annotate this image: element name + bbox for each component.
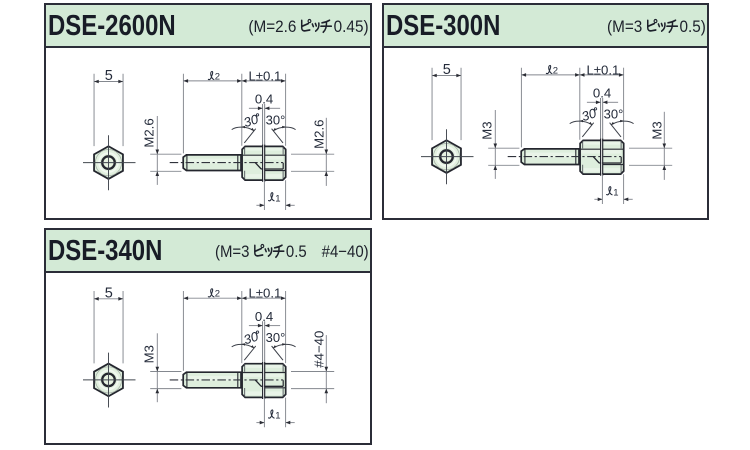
- katakana chi: [323, 20, 331, 23]
- chamfer edge lines: [245, 364, 283, 397]
- chamfer edge lines: [583, 141, 621, 174]
- left thread dimension: [156, 333, 158, 402]
- hex flat edge lines: [580, 148, 624, 150]
- 30 degree chamfer callouts: [244, 346, 283, 360]
- svg-text:1: 1: [613, 187, 618, 198]
- hex flat edge lines: [242, 372, 286, 374]
- dimension l1: [264, 180, 285, 210]
- right thread dimension: [325, 335, 327, 403]
- katakana pi: [255, 244, 284, 257]
- part centerline: [508, 156, 622, 158]
- dimension l2: [183, 74, 241, 154]
- dimension 5 (across flats): [94, 291, 123, 363]
- svg-text:M2.6: M2.6: [312, 120, 327, 149]
- svg-text:1: 1: [275, 411, 280, 422]
- svg-text:L±0.1: L±0.1: [586, 62, 619, 77]
- katakana small tsu: [312, 24, 315, 27]
- svg-text:30°: 30°: [266, 113, 286, 128]
- hex flat edge lines: [242, 154, 286, 156]
- left thread dimension: [494, 110, 496, 179]
- svg-text:L±0.1: L±0.1: [248, 286, 281, 301]
- 30 degree chamfer callouts: [244, 129, 283, 143]
- hexagon end view: [432, 140, 461, 173]
- katakana small tsu: [658, 24, 661, 27]
- hex body side view: [242, 364, 286, 398]
- threaded stud side view: [183, 155, 241, 171]
- svg-text:5: 5: [105, 68, 113, 84]
- part centerline: [170, 379, 284, 381]
- dimension l1: [264, 398, 285, 428]
- dimension 5 (across flats): [94, 74, 123, 146]
- tapped hole section lines: [255, 163, 261, 169]
- svg-text:L±0.1: L±0.1: [248, 68, 281, 83]
- hex crosshair centerlines: [83, 353, 136, 408]
- panel DSE-300N: [382, 3, 709, 220]
- katakana chi: [668, 20, 676, 23]
- katakana pi: [302, 19, 332, 32]
- svg-text:5: 5: [105, 285, 113, 301]
- left thread dimension: [156, 116, 158, 185]
- hexagon end view: [94, 364, 123, 397]
- svg-text:1: 1: [275, 193, 280, 204]
- svg-text:#4−40: #4−40: [312, 331, 327, 368]
- right thread dimension: [663, 112, 665, 180]
- dimension L±0.1: [623, 68, 625, 140]
- svg-text:0.4: 0.4: [255, 92, 273, 107]
- chamfer edge lines: [245, 147, 283, 180]
- hex crosshair centerlines: [83, 135, 136, 190]
- screwdriver slot: [601, 139, 602, 176]
- tapped hole section lines: [593, 157, 599, 163]
- panel DSE-2600N: [44, 3, 372, 220]
- dimension 5 (across flats): [432, 68, 461, 140]
- dimension l2: [183, 291, 241, 371]
- svg-text:2: 2: [553, 65, 558, 76]
- hexagon end view: [94, 146, 123, 179]
- thread label M2.6: [142, 118, 157, 147]
- threaded stud side view: [521, 149, 579, 165]
- svg-text:M3: M3: [480, 121, 495, 139]
- svg-text:M2.6: M2.6: [142, 118, 157, 147]
- thread label M2.6: [312, 120, 327, 149]
- svg-text:5: 5: [443, 62, 451, 78]
- dimension 0.4 (slot width): [263, 104, 265, 144]
- panel DSE-340N: [44, 228, 372, 445]
- hex crosshair centerlines: [421, 129, 474, 184]
- threaded stud side view: [183, 372, 241, 388]
- thread label M3: [480, 121, 495, 139]
- dimension l2: [521, 68, 579, 148]
- svg-text:M3: M3: [142, 345, 157, 363]
- svg-text:30°: 30°: [604, 107, 624, 122]
- 30 degree chamfer callouts: [582, 123, 621, 137]
- dimension l1: [602, 174, 623, 204]
- thread label M3: [142, 345, 157, 363]
- dimension L±0.1: [285, 291, 287, 363]
- thread label #4&#8722;40: [312, 331, 327, 368]
- right thread dimension: [325, 118, 327, 186]
- thread label M3: [650, 121, 665, 139]
- svg-text:30°: 30°: [266, 330, 286, 345]
- svg-text:M3: M3: [650, 121, 665, 139]
- screwdriver slot: [263, 362, 264, 399]
- dimension L±0.1: [285, 74, 287, 146]
- dimension 0.4 (slot width): [601, 98, 603, 138]
- svg-text:0.4: 0.4: [593, 86, 611, 101]
- katakana chi: [275, 245, 282, 248]
- part centerline: [170, 162, 284, 164]
- svg-text:0.4: 0.4: [255, 309, 273, 324]
- hex body side view: [580, 140, 624, 174]
- katakana pi: [648, 19, 678, 32]
- screwdriver slot: [263, 145, 264, 182]
- svg-text:2: 2: [215, 289, 220, 300]
- katakana small tsu: [265, 249, 268, 252]
- dimension 0.4 (slot width): [263, 321, 265, 361]
- hex body side view: [242, 146, 286, 180]
- svg-text:2: 2: [215, 71, 220, 82]
- tapped hole section lines: [255, 380, 261, 386]
